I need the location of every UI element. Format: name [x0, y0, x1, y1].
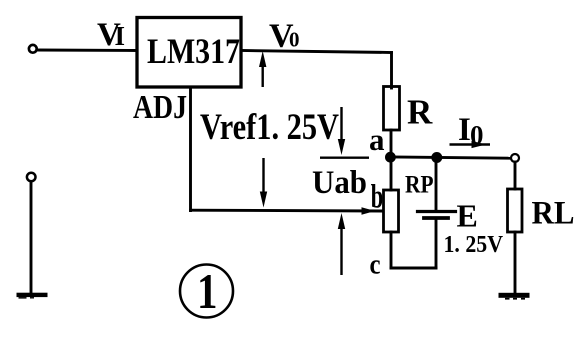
svg-text:Vref1. 25V: Vref1. 25V	[200, 107, 339, 148]
svg-text:1: 1	[197, 263, 218, 319]
wire battery bottom	[435, 219, 438, 268]
wire R to node a	[390, 130, 393, 157]
node a junction dot	[385, 152, 396, 163]
svg-text:ADJ: ADJ	[133, 89, 187, 126]
svg-text:E: E	[457, 198, 478, 234]
wire terminal to left ground	[30, 182, 33, 293]
resistor RL	[508, 189, 523, 232]
wire terminal down to RL	[514, 162, 517, 189]
wire battery top to node	[435, 158, 438, 212]
wire node a row to output terminal	[391, 157, 511, 158]
wire node c to battery bottom	[391, 267, 436, 270]
node a level bar for Uab	[320, 156, 369, 158]
battery E short thick plate	[424, 216, 448, 220]
svg-text:b: b	[371, 179, 384, 216]
svg-text:c: c	[370, 249, 381, 281]
ground left	[17, 293, 48, 297]
wiper arrowhead into RP (node b)	[362, 207, 376, 215]
svg-text:LM317: LM317	[147, 31, 240, 71]
input terminal (open circle)	[29, 45, 37, 53]
wire input to LM317	[37, 49, 137, 52]
svg-text:a: a	[369, 122, 385, 157]
junction dot at battery top	[431, 152, 442, 163]
wire ADJ pin vertical	[189, 87, 192, 211]
dimension arrow Uab (up)	[340, 229, 342, 275]
ground right	[499, 293, 530, 298]
output terminal (open circle)	[511, 154, 519, 162]
wire RP bottom to node c	[390, 232, 393, 268]
wire ADJ to wiper b	[191, 209, 384, 213]
current arrow I0	[450, 141, 491, 148]
svg-text:I: I	[458, 112, 471, 148]
battery E long plate	[418, 210, 456, 213]
regulator U1 LM317 box	[137, 18, 241, 88]
dimension arrow Vref (down)	[262, 158, 264, 192]
dimension arrow Vref (up)	[259, 51, 369, 275]
svg-text:RP: RP	[405, 172, 434, 199]
svg-text:R: R	[407, 93, 433, 132]
wire node a to RP	[390, 157, 393, 191]
svg-text:Uab: Uab	[312, 165, 367, 201]
svg-text:0: 0	[470, 120, 484, 150]
svg-text:0: 0	[289, 28, 300, 52]
bottom-left terminal (open circle)	[27, 173, 36, 182]
resistor R	[384, 87, 400, 131]
potentiometer RP body	[384, 190, 399, 232]
svg-text:RL: RL	[532, 196, 575, 232]
wire RL to ground	[514, 232, 517, 293]
dimension arrow Uab (down)	[340, 107, 342, 141]
wire output Vo	[241, 51, 392, 53]
svg-text:1. 25V: 1. 25V	[444, 232, 504, 258]
figure number circle	[180, 265, 233, 318]
wire down to resistor R	[390, 53, 393, 89]
svg-text:I: I	[115, 21, 126, 51]
